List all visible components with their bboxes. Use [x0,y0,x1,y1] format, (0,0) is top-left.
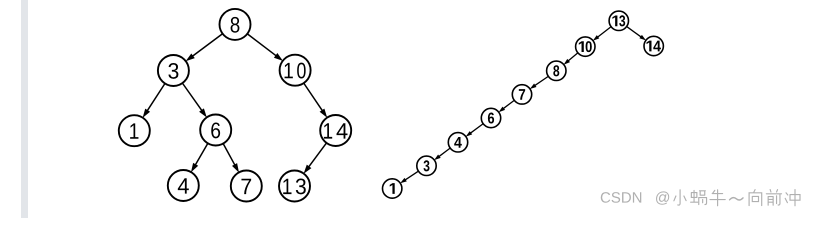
wire edge right-tree 4->3 [434,148,450,160]
node right-tree 1 [383,179,402,198]
node right-tree 7 [512,85,531,104]
wire edge right-tree 13->14 [627,27,646,41]
node left-tree 3 [158,55,189,86]
wire edge right-tree 10->8 [564,53,578,65]
wire edge left-tree 8->3 [186,34,223,61]
wire edge right-tree 7->6 [499,101,514,113]
node left-tree 6 [200,115,231,146]
left margin quote bar [21,0,28,218]
watermark CSDN @小蜗牛~向前冲 [601,190,800,206]
node right-tree 6 [481,108,500,127]
wire edge right-tree 3->1 [400,171,418,183]
node right-tree 14 [644,36,663,55]
wire edge left-tree 6->4 [191,144,208,173]
node left-tree 7 [231,171,262,202]
node right-tree 3 [417,156,436,175]
node right-tree 10 [576,37,595,56]
wire edge right-tree 6->4 [466,124,483,137]
node left-tree 1 [119,115,150,146]
node right-tree 8 [547,61,566,80]
wire edge left-tree 10->14 [304,84,327,118]
node left-tree 13 [279,171,310,202]
node left-tree 4 [168,170,199,201]
node right-tree 4 [448,133,467,152]
wire edge left-tree 3->1 [143,84,165,118]
node left-tree 14 [320,115,351,146]
wire edge left-tree 6->7 [223,144,239,173]
node left-tree 10 [280,55,311,86]
wire edge right-tree 8->7 [530,77,548,89]
wire edge right-tree 13->10 [593,27,611,41]
wire edge left-tree 8->10 [248,34,283,61]
node left-tree 8 [220,9,251,40]
node right-tree 13 [609,11,628,30]
wire edge left-tree 14->13 [304,143,327,173]
wire edge left-tree 3->6 [183,84,207,118]
